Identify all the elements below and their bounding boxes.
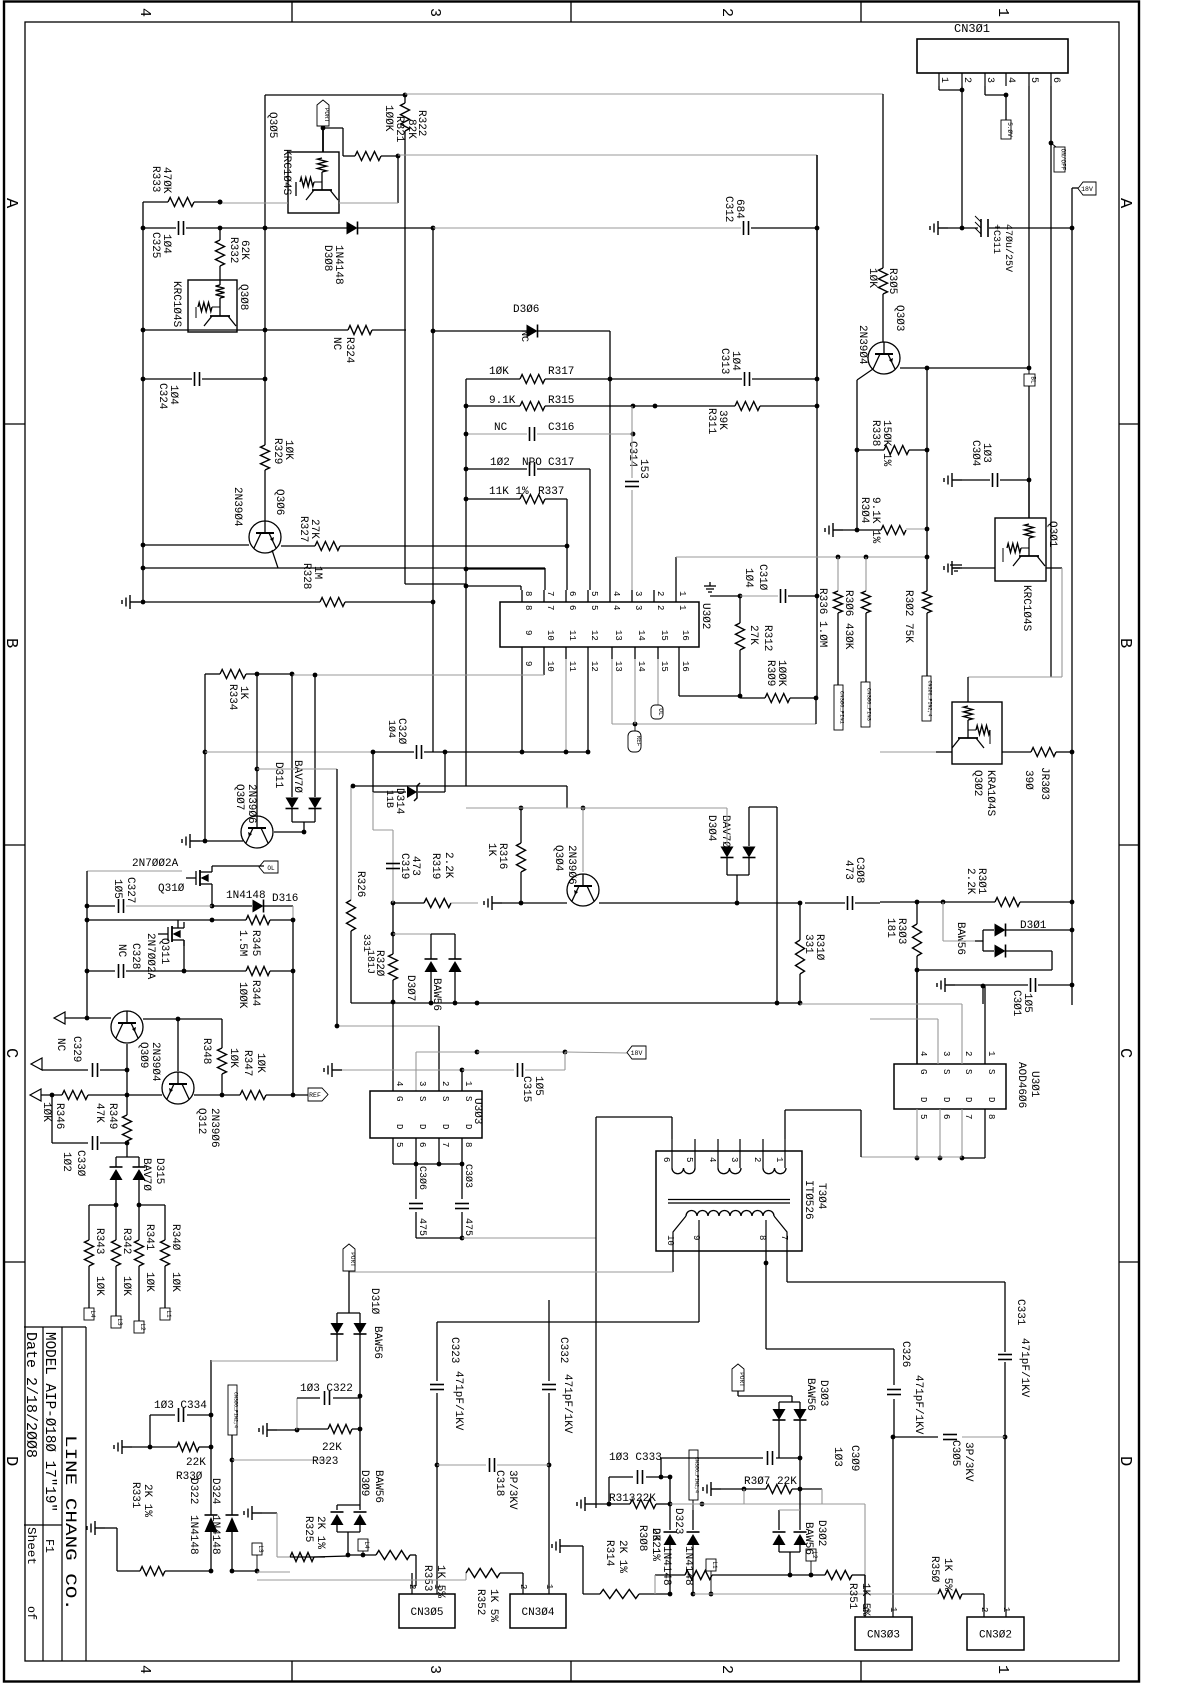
- wire: [917, 969, 1052, 971]
- wire: [212, 306, 220, 308]
- wire: [799, 1420, 801, 1458]
- wire: [100, 1142, 127, 1144]
- junction C312: [815, 226, 820, 231]
- resistor R321: [355, 152, 381, 161]
- svg-text:C313: C313: [718, 348, 730, 374]
- ground R304: [825, 523, 843, 537]
- Q301 br resistor: [1007, 544, 1021, 553]
- wire: [342, 128, 344, 156]
- junction pin3-4: [1004, 93, 1009, 98]
- svg-text:R316: R316: [496, 843, 508, 869]
- wire pin9 down: [521, 659, 523, 752]
- wire: [962, 479, 990, 481]
- ground small right: [950, 565, 962, 571]
- junction: [443, 750, 448, 755]
- net label L1: [160, 1308, 170, 1320]
- svg-text:2N39Ø6: 2N39Ø6: [565, 845, 577, 885]
- svg-text:10: 10: [545, 630, 555, 641]
- diode D307b: [449, 958, 462, 960]
- svg-text:R3Ø1: R3Ø1: [975, 868, 987, 895]
- wire: [655, 405, 735, 407]
- wire: [791, 1396, 793, 1402]
- wire R327 row: [281, 545, 315, 547]
- svg-text:PORT: PORT: [323, 108, 330, 123]
- svg-text:2: 2: [718, 1665, 735, 1674]
- diode D310b: [354, 1323, 367, 1334]
- wire R306 down: [837, 613, 839, 685]
- capacitor C311 (electrolytic): [975, 216, 988, 237]
- junction: [391, 901, 396, 906]
- svg-text:1Ø5: 1Ø5: [111, 879, 123, 899]
- wire to CN305 pin1: [436, 1465, 438, 1586]
- svg-text:8: 8: [523, 605, 533, 610]
- wire: [345, 601, 433, 603]
- wire: [639, 1593, 670, 1595]
- T304 primary coil 1: [672, 1168, 695, 1174]
- svg-text:C3Ø5: C3Ø5: [949, 1440, 961, 1466]
- net flag PORT Q305: [317, 100, 329, 126]
- svg-text:11: 11: [567, 630, 577, 641]
- svg-text:Q3Ø4: Q3Ø4: [552, 845, 564, 872]
- wire: [359, 1313, 361, 1323]
- wire y1594 row long: [693, 1593, 880, 1595]
- svg-text:6: 6: [1050, 77, 1061, 83]
- svg-text:BAW56: BAW56: [954, 922, 966, 955]
- svg-text:4: 4: [136, 1665, 153, 1674]
- svg-text:1Ø5: 1Ø5: [1021, 993, 1033, 1013]
- resistor R314: [600, 1590, 639, 1599]
- junction Q303 emitter: [925, 366, 930, 371]
- svg-text:R32Ø: R32Ø: [373, 950, 385, 977]
- svg-text:1ØK: 1ØK: [489, 366, 509, 378]
- wire: [785, 1109, 861, 1111]
- capacitor C332: [542, 1385, 556, 1390]
- resistor R317: [520, 375, 545, 384]
- svg-text:CN3Ø6_PIN2,4: CN3Ø6_PIN2,4: [693, 1457, 700, 1493]
- junction 18V C301: [1070, 983, 1075, 988]
- resistor R302: [923, 591, 932, 613]
- resistor R311: [735, 402, 760, 411]
- svg-text:R334: R334: [226, 684, 238, 711]
- diode D301a: [995, 924, 1006, 937]
- svg-text:NC: NC: [494, 422, 508, 434]
- capacitor C323: [430, 1385, 444, 1390]
- wire pin10 row to PORT: [349, 1271, 673, 1273]
- wire: [955, 984, 1028, 986]
- svg-text:NC: NC: [518, 330, 529, 342]
- junction L3: [255, 1569, 260, 1574]
- resistor R327: [315, 542, 340, 551]
- net label L3: [111, 1316, 121, 1328]
- U302 pin 2 stub: [653, 590, 655, 602]
- wire: [656, 1503, 670, 1505]
- junction: [475, 1001, 480, 1006]
- svg-text:NC: NC: [330, 337, 342, 351]
- net label CN306_PIN2,4 bottom: [228, 1385, 237, 1435]
- svg-text:Q3Ø1: Q3Ø1: [1046, 521, 1058, 548]
- T304 secondary coil: [686, 1211, 774, 1217]
- junction: [855, 528, 860, 533]
- wire: [751, 227, 817, 229]
- wire: [100, 1069, 127, 1071]
- svg-text:1K 5%: 1K 5%: [859, 1583, 871, 1616]
- wire C317 row: [466, 468, 527, 470]
- wire: [1046, 567, 1062, 569]
- wire D306 net: [433, 330, 527, 332]
- svg-text:1: 1: [677, 605, 687, 610]
- resistor R322: [401, 103, 410, 131]
- wire: [139, 1204, 165, 1206]
- wire: [692, 1545, 694, 1594]
- svg-text:1M: 1M: [311, 566, 323, 579]
- wire R353 row: [348, 1554, 376, 1556]
- wire pin9 row: [437, 1321, 699, 1323]
- CN303 pin 2 stub: [864, 1609, 866, 1617]
- wire: [194, 201, 220, 203]
- wire: [744, 1488, 766, 1490]
- wire: [982, 986, 984, 1004]
- wire Q304 out row: [599, 902, 737, 904]
- svg-text:D314: D314: [393, 788, 405, 815]
- wire R309 row: [740, 697, 765, 699]
- svg-text:D: D: [463, 1124, 473, 1129]
- wire pin10 row to R334: [292, 674, 544, 676]
- Q308 internal transistor: [204, 298, 236, 326]
- svg-text:R342: R342: [120, 1228, 132, 1254]
- U302 pin 16 stub: [678, 647, 680, 659]
- wire: [739, 650, 741, 696]
- wire to C312: [433, 227, 741, 229]
- connector CN305: [399, 1594, 455, 1628]
- wire: [270, 919, 293, 921]
- svg-text:1ØØK: 1ØØK: [236, 982, 248, 1009]
- svg-text:2.2K: 2.2K: [964, 868, 976, 895]
- wire: [906, 528, 927, 530]
- T304 pin 1 lead: [784, 1139, 786, 1168]
- wire U301 pin7 down: [961, 1109, 963, 1158]
- junction 18V: [1070, 900, 1075, 905]
- wire: [788, 595, 817, 597]
- junction: [464, 567, 469, 572]
- svg-text:C317: C317: [548, 457, 574, 469]
- svg-text:471pF/1KV: 471pF/1KV: [912, 1375, 924, 1435]
- U302 pin 8 stub: [521, 590, 523, 602]
- svg-text:C3Ø8: C3Ø8: [853, 857, 865, 883]
- junction: [460, 1162, 465, 1167]
- junction: [668, 1502, 673, 1507]
- junction: [125, 1141, 130, 1146]
- junction JR303 18V: [1070, 750, 1075, 755]
- junction: [668, 1475, 673, 1480]
- transistor Q307 2N3906: [241, 816, 273, 848]
- wire: [477, 1051, 565, 1053]
- wire: [359, 1505, 361, 1510]
- resistor R303: [913, 924, 922, 956]
- junction: [210, 904, 215, 909]
- wire: [926, 557, 928, 591]
- capacitor C306: [409, 1204, 423, 1209]
- connector CN302: [967, 1617, 1024, 1650]
- svg-text:1: 1: [994, 1665, 1011, 1674]
- wire: [790, 697, 816, 699]
- junction: [414, 1162, 419, 1167]
- U302 pin 15 stub: [657, 647, 659, 659]
- wire: [566, 499, 568, 546]
- wire: [1028, 480, 1030, 518]
- svg-text:47ØK: 47ØK: [160, 167, 172, 194]
- svg-text:1ØK: 1ØK: [40, 1102, 52, 1122]
- svg-text:471pF/1KV: 471pF/1KV: [452, 1371, 464, 1431]
- wire: [105, 1527, 117, 1529]
- wire: [984, 86, 986, 95]
- zone tick top: [570, 2, 572, 23]
- wire: [143, 378, 192, 380]
- wire pin10 down: [543, 659, 545, 675]
- wire U301 pin4 up: [916, 970, 918, 1064]
- resistor R344: [246, 967, 270, 976]
- svg-text:1N4148: 1N4148: [187, 1515, 199, 1555]
- svg-text:CN3Ø5: CN3Ø5: [410, 1607, 443, 1619]
- wire CN303 pin2 up: [864, 1575, 866, 1609]
- wire: [909, 449, 927, 451]
- svg-text:2: 2: [752, 1157, 762, 1162]
- svg-text:3: 3: [633, 591, 643, 596]
- junction: [255, 672, 260, 677]
- svg-text:15: 15: [659, 661, 669, 672]
- wire C306 top: [415, 1164, 417, 1199]
- svg-text:R321: R321: [393, 116, 405, 143]
- svg-text:S: S: [963, 1069, 973, 1074]
- wire: [416, 1237, 462, 1239]
- CN301 pin 6 stub: [1050, 73, 1052, 86]
- zone tick left: [4, 1261, 25, 1263]
- IC U303: [370, 1091, 482, 1138]
- wire Q311 source: [183, 940, 185, 971]
- U302 pin 12 stub: [587, 647, 589, 659]
- wire CN304 pin2 up: [522, 1573, 524, 1586]
- junction: [125, 1068, 130, 1073]
- resistor R319: [424, 899, 451, 908]
- svg-text:A: A: [1, 198, 20, 209]
- junction: [313, 673, 318, 678]
- ground Q307: [182, 834, 200, 848]
- T304 primary coil 3: [763, 1168, 786, 1174]
- resistor R341: [135, 1240, 144, 1266]
- diode D311a: [286, 798, 299, 809]
- wire ladder rail: [465, 379, 467, 586]
- junction R323: [358, 1427, 363, 1432]
- wire 18V rail long: [1071, 228, 1073, 1005]
- svg-text:2K 1%: 2K 1%: [649, 1528, 661, 1561]
- ground C304: [944, 473, 962, 487]
- svg-text:1Ø4: 1Ø4: [742, 568, 754, 588]
- capacitor C305: [943, 1435, 957, 1440]
- wire Q301-Q302 link: [968, 676, 1062, 678]
- junction: [464, 467, 469, 472]
- capacitor C318: [490, 1458, 495, 1472]
- svg-text:C331: C331: [1014, 1299, 1026, 1326]
- CN304 pin 2 stub: [522, 1586, 524, 1594]
- wire: [465, 1573, 467, 1580]
- wire U301 pin5 down: [916, 1109, 918, 1158]
- net label L1 flag: [706, 1559, 716, 1571]
- wire to 18V: [565, 1052, 627, 1053]
- svg-text:C32Ø: C32Ø: [395, 718, 407, 745]
- wire: [295, 182, 297, 196]
- capacitor C310: [781, 589, 786, 603]
- wire: [816, 596, 818, 698]
- junction: [788, 1573, 793, 1578]
- wire: [404, 95, 406, 103]
- resistor R349: [123, 1115, 132, 1141]
- svg-text:L1: L1: [711, 1561, 718, 1569]
- svg-text:D: D: [918, 1097, 928, 1102]
- svg-text:L4: L4: [89, 1310, 96, 1318]
- svg-text:C325: C325: [149, 232, 161, 258]
- Q301 base resistor: [1025, 524, 1034, 538]
- svg-text:475: 475: [416, 1218, 427, 1236]
- U303 pin 7 stub down: [438, 1138, 440, 1164]
- svg-text:NC: NC: [115, 944, 127, 958]
- wire C327 row: [87, 905, 115, 907]
- wire R350 row: [880, 1593, 938, 1595]
- junction: [519, 806, 524, 811]
- wire pin9 down: [698, 1251, 700, 1322]
- svg-text:D: D: [1115, 1456, 1134, 1466]
- wire: [138, 1157, 140, 1167]
- wire CN303 pin2 feed: [864, 1575, 866, 1609]
- wire y786 row: [353, 785, 567, 787]
- wire pin4 riser: [609, 331, 611, 590]
- svg-text:27K: 27K: [308, 519, 320, 539]
- U302 pin 1 stub: [675, 590, 677, 602]
- wire: [739, 596, 741, 623]
- wire: [266, 1094, 308, 1096]
- wire: [778, 1545, 780, 1552]
- svg-text:1: 1: [888, 1607, 898, 1612]
- diode D302b: [794, 1531, 807, 1533]
- wire pin1 row: [676, 556, 927, 558]
- svg-text:3: 3: [417, 1081, 427, 1086]
- svg-text:D: D: [1, 1456, 20, 1466]
- svg-text:KRC1Ø4S: KRC1Ø4S: [1020, 585, 1032, 632]
- svg-text:CN3Ø6_PIN2,4: CN3Ø6_PIN2,4: [232, 1392, 239, 1428]
- svg-text:Q3Ø6: Q3Ø6: [273, 489, 285, 515]
- wire: [336, 1525, 338, 1532]
- resistor R330: [177, 1443, 199, 1452]
- ground R314: [552, 1539, 570, 1553]
- wire: [779, 1509, 800, 1511]
- wire Q304 top: [582, 808, 584, 872]
- wire: [1021, 547, 1029, 549]
- svg-text:C3Ø6: C3Ø6: [416, 1166, 428, 1190]
- svg-text:8: 8: [463, 1142, 473, 1147]
- wire R323 row: [297, 1428, 328, 1430]
- svg-text:C316: C316: [548, 422, 574, 434]
- wire: [916, 956, 918, 1064]
- svg-text:1K 5%: 1K 5%: [941, 1558, 953, 1591]
- resistor R308: [685, 1571, 712, 1580]
- junction: [346, 1553, 351, 1558]
- svg-text:1Ø3 C322: 1Ø3 C322: [300, 1383, 353, 1395]
- wire: [466, 568, 545, 570]
- transistor Q312 2N3906: [162, 1072, 194, 1104]
- mosfet Q310: [186, 866, 212, 890]
- resistor R328: [320, 598, 345, 607]
- wire C326 top: [893, 1349, 895, 1385]
- wire y752 net: [205, 751, 373, 753]
- svg-text:8: 8: [986, 1114, 996, 1119]
- junction R328: [431, 600, 436, 605]
- svg-text:L3: L3: [116, 1318, 123, 1326]
- wire: [938, 86, 940, 90]
- svg-text:1Ø5: 1Ø5: [532, 1076, 544, 1096]
- svg-text:C3Ø9: C3Ø9: [848, 1445, 860, 1471]
- U302 pin 11 stub: [565, 647, 567, 659]
- svg-text:Sheet: Sheet: [24, 1527, 38, 1565]
- junction: [114, 1203, 119, 1208]
- net flag 18V: [1078, 182, 1096, 195]
- svg-text:D: D: [986, 1097, 996, 1102]
- diode D324: [226, 1514, 239, 1516]
- diode D307a: [425, 958, 438, 960]
- wire: [231, 1532, 233, 1571]
- junction C325: [218, 226, 223, 231]
- svg-text:R329: R329: [271, 438, 283, 464]
- junction C309: [798, 1456, 803, 1461]
- svg-text:R344: R344: [249, 980, 261, 1007]
- wire: [520, 872, 522, 903]
- CN301 pin 1 stub: [938, 73, 940, 86]
- U303 pin 6 stub down: [415, 1138, 417, 1164]
- svg-text:R323: R323: [312, 1456, 338, 1468]
- svg-text:331: 331: [802, 934, 814, 954]
- svg-text:C3Ø3: C3Ø3: [462, 1164, 474, 1188]
- svg-text:R31Ø: R31Ø: [813, 934, 825, 961]
- svg-text:6: 6: [567, 591, 577, 596]
- wire y1361 row: [211, 1360, 337, 1362]
- wire C318 row: [437, 1464, 486, 1466]
- diode D304b: [743, 847, 756, 858]
- U302 pin 5 stub: [587, 590, 589, 602]
- svg-text:4: 4: [611, 605, 621, 610]
- net label L2 flag: [806, 1549, 816, 1561]
- svg-text:R3Ø7 22K: R3Ø7 22K: [744, 1476, 797, 1488]
- wire: [983, 929, 994, 931]
- svg-text:MODEL AIP-Ø18Ø 17"19": MODEL AIP-Ø18Ø 17"19": [41, 1332, 58, 1512]
- wire: [418, 791, 445, 793]
- junction: [203, 750, 208, 755]
- svg-text:22K: 22K: [322, 1442, 342, 1454]
- wire D315 bar: [116, 1156, 139, 1158]
- svg-text:KRA1Ø4S: KRA1Ø4S: [984, 770, 996, 817]
- wire: [679, 695, 740, 697]
- capacitor C303: [455, 1204, 469, 1209]
- svg-text:R351: R351: [846, 1583, 858, 1610]
- wire: [212, 905, 252, 907]
- junction: [925, 448, 930, 453]
- junction: [291, 1093, 296, 1098]
- resistor R343: [85, 1240, 94, 1266]
- wire: [466, 585, 521, 587]
- junction: [125, 1093, 130, 1098]
- svg-text:R345: R345: [249, 930, 261, 956]
- wire D308 net: [220, 227, 347, 229]
- wire R325 row: [290, 1556, 325, 1558]
- wire Q310 gate: [87, 870, 182, 872]
- wire: [200, 840, 243, 842]
- junction PORT: [321, 126, 326, 131]
